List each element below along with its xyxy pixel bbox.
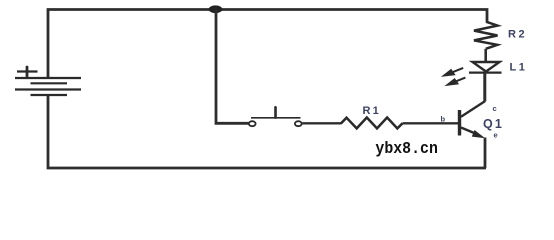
svg-text:e: e [494,130,498,139]
battery cell plates [15,78,81,95]
svg-text:R2: R2 [508,29,527,41]
push-button switch bar [251,117,301,119]
svg-text:L1: L1 [510,62,528,74]
wire: switch to resistor R1 [303,122,342,124]
svg-text:ybx8.cn: ybx8.cn [375,140,438,159]
transistor Q1 emitter lead with arrow [461,128,485,139]
label L1 [510,62,528,74]
wire: middle branch from junction down to switch [216,10,249,124]
wire: top rail from battery + to R2 [48,10,487,79]
wire: R2 to LED anode [484,49,487,62]
resistor R2 zigzag [474,22,498,49]
resistor R1 zigzag [341,118,403,129]
LED emission arrow lower [444,78,465,87]
label b (base pin) [441,115,446,124]
push-button switch actuator stub [274,107,277,117]
wire: battery negative down to bottom rail [48,95,486,168]
watermark text ybx8.cn [375,140,438,159]
label R1 [363,105,381,117]
LED L1 triangle (anode) [473,62,500,72]
label e (emitter pin) [494,130,498,139]
svg-text:R1: R1 [363,105,381,117]
svg-text:Q1: Q1 [483,117,504,131]
label Q1 [483,117,504,131]
LED emission arrow upper [441,68,463,77]
battery plus sign [17,67,38,76]
LED L1 cathode bar [469,71,502,73]
push-button switch right terminal [295,121,302,126]
svg-text:c: c [493,104,497,113]
wire: resistor R1 to transistor base [403,122,459,124]
push-button switch left terminal [249,121,256,126]
node: junction dot on top rail [209,5,223,13]
wire: emitter down to bottom rail [484,138,487,169]
wire: LED cathode down to collector [484,74,487,102]
transistor Q1 collector lead [461,74,485,117]
label c (collector pin) [493,104,497,113]
transistor Q1 base bar [458,110,461,136]
svg-text:b: b [441,115,446,124]
label R2 [508,29,527,41]
